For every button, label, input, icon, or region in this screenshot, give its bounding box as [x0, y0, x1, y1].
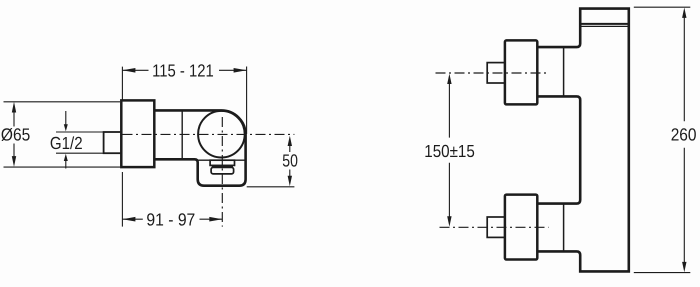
dim 91-97 line: [122, 218, 222, 220]
svg-text:150±15: 150±15: [424, 141, 475, 161]
inlet nipple G1/2: [104, 132, 122, 153]
dim 50 line: [289, 144, 291, 179]
upper nipple: [487, 63, 505, 83]
dim 91-97 extension line: [121, 172, 123, 227]
outlet nut: [211, 167, 234, 174]
body outline: [154, 110, 245, 185]
cap parting lines: [580, 23, 629, 25]
dim 115-121 extension lines: [122, 67, 246, 135]
horizontal centerline: [123, 133, 295, 135]
body outline middle notch: [537, 96, 580, 203]
upper centerline: [436, 72, 549, 74]
body outline upper+right+bottom: [537, 9, 628, 272]
dim diameter 65 line: [13, 110, 15, 159]
lower centerline: [440, 226, 549, 228]
svg-text:50: 50: [282, 151, 298, 171]
dim G1/2 arrows: [65, 111, 67, 169]
dim 50 extension line: [247, 186, 295, 188]
outlet flange: [210, 160, 234, 165]
wall plate: [121, 100, 154, 167]
dim 150+-15 line: [448, 81, 450, 220]
knob circle: [198, 111, 245, 158]
svg-text:G1/2: G1/2: [50, 133, 83, 153]
dim G1/2 extension lines: [56, 132, 104, 153]
lower nipple: [487, 217, 505, 237]
dim 260 line: [683, 15, 685, 265]
internal edge body/plate: [181, 110, 183, 159]
lower knob: [505, 195, 537, 260]
outlet groove band: [212, 165, 233, 167]
vertical centerline of outlet: [221, 117, 223, 227]
boss internal edges: [563, 47, 565, 251]
dim 260 extension lines: [634, 7, 691, 272]
upper knob: [505, 40, 537, 104]
dim 115-121 line: [122, 69, 246, 71]
dim diameter 65 extension lines: [4, 102, 121, 167]
svg-text:91 - 97: 91 - 97: [146, 210, 195, 230]
internal bottom parting line: [198, 159, 246, 161]
svg-text:Ø65: Ø65: [1, 124, 30, 144]
svg-text:115 - 121: 115 - 121: [152, 61, 214, 81]
svg-text:260: 260: [671, 125, 697, 145]
